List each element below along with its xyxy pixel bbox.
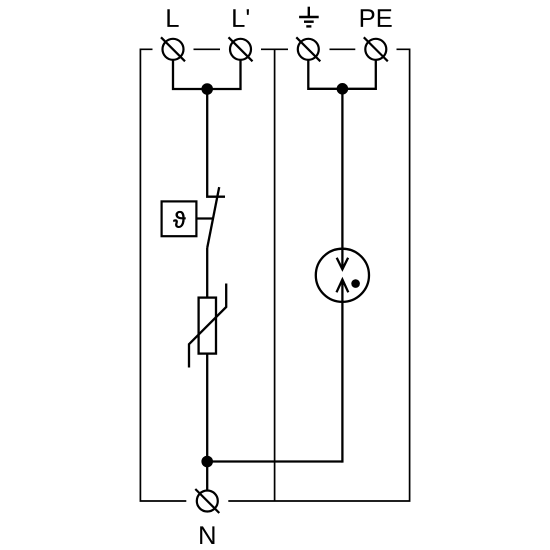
wire node A to switch fixed contact (207, 89, 225, 197)
varistor RV1 body (199, 298, 216, 354)
spark gap trigger dot (351, 279, 360, 288)
enclosure top border segment 4 (330, 48, 356, 50)
earth symbol (299, 7, 319, 27)
label L (167, 9, 178, 27)
spark gap F1 body (316, 249, 369, 302)
junction node B (337, 83, 349, 95)
label L' (233, 9, 249, 27)
enclosure top border segment 2 (194, 48, 221, 50)
junction node A (201, 83, 213, 95)
thermal sensor box (162, 201, 197, 236)
label N (200, 526, 214, 544)
terminal PE (364, 37, 388, 61)
wire switch to varistor (206, 248, 208, 298)
terminal L (161, 37, 185, 61)
wire earth and PE to node B bus (308, 60, 376, 89)
terminal earth (296, 37, 320, 61)
wire node C to spark gap (207, 460, 342, 462)
spark gap bottom electrode wire (341, 280, 343, 463)
wire node B to spark gap top electrode (341, 89, 343, 269)
module divider line (274, 49, 276, 501)
spark gap bottom arrowhead (337, 280, 349, 293)
terminal N (195, 489, 219, 513)
wire node C to terminal N (206, 462, 208, 490)
thermal sensor link wire (196, 217, 212, 219)
wire L and L' to node A bus (173, 60, 241, 89)
thermal sensor theta symbol (173, 211, 185, 228)
enclosure left border and bottom-left (140, 49, 186, 501)
terminal L' (229, 37, 253, 61)
varistor diagonal stroke (189, 284, 226, 368)
label PE (361, 9, 392, 27)
spark gap top arrowhead (337, 258, 348, 270)
enclosure right border and bottom-right (228, 49, 409, 501)
wire varistor to node C (206, 354, 208, 462)
enclosure top border segment 3 (261, 48, 288, 50)
junction node C (201, 456, 213, 468)
thermal disconnect switch blade (207, 187, 219, 248)
